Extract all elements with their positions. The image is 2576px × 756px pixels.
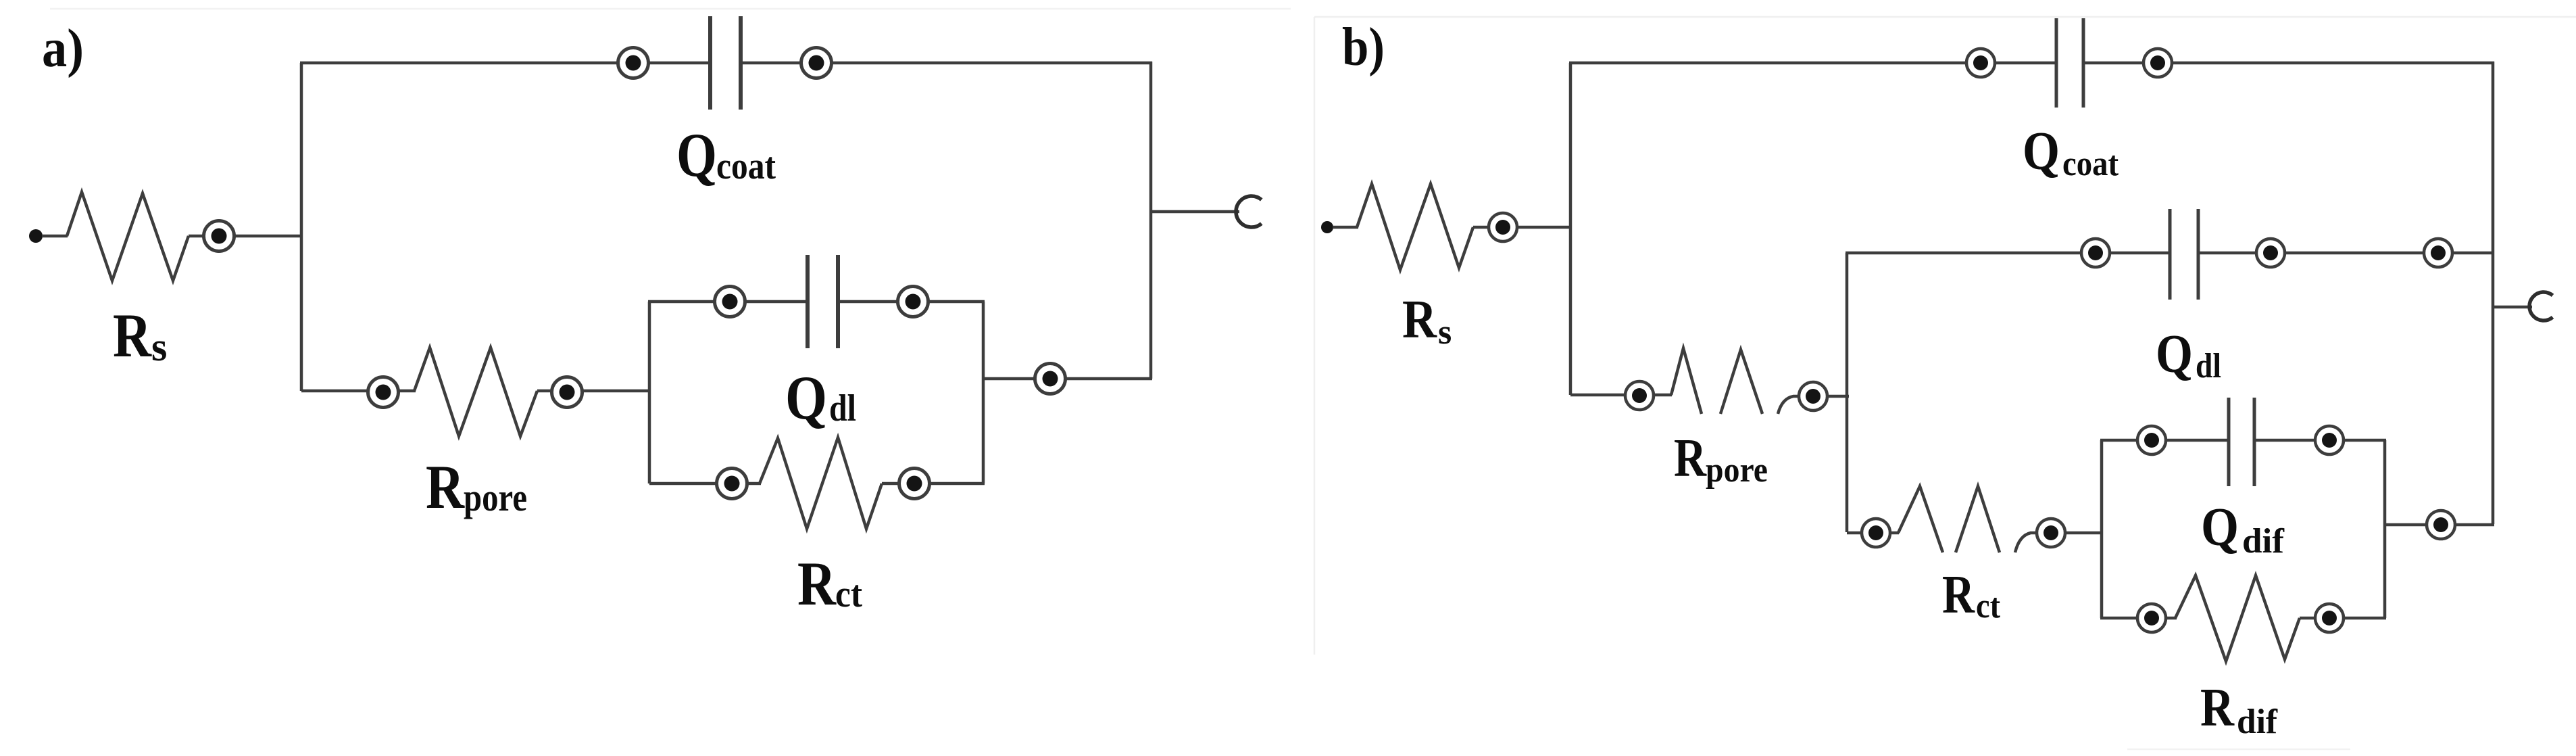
terminal Qdl right (a) [898,287,928,317]
wire Qdif branch left segment (b) [2100,439,2229,442]
wire Qdl branch right segment (b) [2198,252,2494,255]
svg-text:pore: pore [1706,451,1768,490]
wire second branch vertical (b) [1846,253,1849,532]
wire right branch vertical (a) [1149,62,1153,379]
wire top branch left segment (a) [300,62,710,65]
wire Rpore branch left segment (b) [1570,394,1672,397]
open terminal C (b) [2529,292,2552,321]
wire parallel box left vertical (a) [648,302,651,483]
terminal Rct right (b) [2037,519,2065,547]
svg-text:Q: Q [785,363,827,432]
terminal Qcoat left (b) [1966,49,1995,77]
capacitor Qdl (b) [2170,209,2198,300]
svg-text:R: R [1942,565,1975,625]
wire right branch vertical (b) [2492,62,2495,524]
capacitor Qcoat (a) [710,16,741,110]
terminal after Rs (b) [1489,213,1517,241]
wire Rct branch right segment (a) [882,482,985,486]
svg-text:dif: dif [2242,522,2285,561]
terminal box exit (a) [1035,364,1066,394]
wire parallel box right vertical (a) [982,302,985,483]
wire top branch left segment (b) [1569,62,2056,65]
svg-text:Q: Q [2201,498,2239,557]
resistor Rpore (a) [414,348,537,436]
capacitor Qcoat (b) [2056,18,2083,108]
wire Rdif branch left segment (b) [2100,617,2177,620]
svg-text:ct: ct [1976,587,2001,625]
wire inner box left vertical (b) [2100,440,2104,618]
capacitor Qdif (b) [2229,398,2254,486]
terminal Rpore left (a) [368,377,399,408]
panel a label [42,19,84,78]
capacitor Qdl (a) [808,255,838,348]
faint image seam top (b) [1314,16,2576,18]
wire Rct branch left segment (a) [649,482,761,486]
svg-text:dif: dif [2237,703,2278,741]
svg-text:dl: dl [2196,347,2221,385]
svg-text:a): a) [42,19,84,78]
terminal Qdif right (b) [2315,426,2344,454]
wire left branch vertical (a) [300,63,303,391]
terminal node after Rs (a) [204,221,234,252]
resistor Rpore hook (b) [1778,396,1849,414]
resistor Rdif (b) [2175,575,2300,661]
svg-text:s: s [151,325,167,369]
resistor Rpore stroke 1 (b) [1671,348,1702,414]
terminal Qdl left (a) [715,287,745,317]
svg-text:Q: Q [2023,122,2060,181]
terminal Qdl right (b) [2424,239,2452,267]
svg-text:R: R [1402,290,1437,350]
faint image seam left (b) [1314,17,1316,655]
terminal Qdif left (b) [2137,426,2166,454]
terminal Rdif right (b) [2315,604,2344,632]
resistor Rct (a) [760,438,882,529]
svg-text:R: R [2200,678,2235,738]
svg-text:Q: Q [676,120,717,189]
terminal Rpore right (a) [552,377,583,408]
label Rpore (a) [426,452,527,521]
wire Qdif branch right segment (b) [2254,439,2386,442]
panel b label [1342,18,1385,77]
svg-text:coat: coat [2062,145,2119,183]
label Rpore (b) [1674,429,1768,490]
wire Qdl branch left segment (b) [1846,252,2171,255]
wire top branch right segment (a) [741,62,1152,65]
resistor Rct stroke 1 (b) [1898,486,1943,552]
resistor Rs (a) [67,192,189,281]
label Qcoat (a) [676,120,776,189]
label Qdif (b) [2201,498,2285,561]
svg-text:pore: pore [464,475,527,519]
label Rct (b) [1942,565,2001,625]
label Rs (a) [113,301,167,370]
open terminal C (a) [1236,196,1262,227]
resistor Rct hook (b) [2015,533,2103,552]
wire Qdl branch left segment (a) [648,300,808,304]
svg-text:dl: dl [829,387,856,429]
terminal Rpore right (b) [1799,382,1827,410]
label Rs (b) [1402,290,1452,352]
label Qdl (b) [2156,325,2221,385]
svg-text:R: R [1674,429,1707,488]
resistor Rct stroke 2 (b) [1956,486,2000,552]
wire Rs to left vertical (b) [1473,226,1572,229]
wire input lead (b) [1333,226,1358,229]
svg-text:b): b) [1342,18,1385,77]
svg-text:R: R [797,549,837,618]
wire box exit to right branch (a) [983,377,1152,381]
terminal Rpore left (b) [1625,381,1654,410]
label Qcoat (b) [2023,122,2119,183]
wire Qdl branch right segment (a) [838,300,985,304]
svg-text:ct: ct [835,573,862,615]
terminal Rct right (a) [899,469,930,499]
wire inner box exit (b) [2385,523,2494,527]
svg-text:Q: Q [2156,325,2193,384]
wire Rdif branch right segment (b) [2300,617,2386,620]
label Rdif (b) [2200,678,2278,741]
terminal Qcoat left (a) [618,48,649,78]
wire bottom branch left segment (a) [301,389,416,393]
faint image seam (a) [50,8,1291,10]
wire inner box right vertical (b) [2383,440,2387,618]
terminal Qdl middle (b) [2256,239,2285,267]
terminal Rct left (b) [1862,519,1890,547]
input node dot (a) [29,229,43,243]
faint label box edge under Rdif (b) [2127,749,2350,751]
wire Rpore to box (a) [537,389,651,393]
wire output stub (a) [1151,210,1239,214]
label Qdl (a) [785,363,856,432]
terminal inner box exit (b) [2427,511,2455,539]
wire top branch right segment (b) [2083,62,2494,65]
wire Rs to node A (a) [189,235,303,238]
input node dot (b) [1321,221,1333,233]
wire left branch vertical (b) [1569,63,1572,395]
terminal Qcoat right (a) [801,48,832,78]
svg-text:R: R [426,452,465,521]
terminal Qdl left (b) [2081,239,2110,267]
resistor Rpore stroke 2 (b) [1720,350,1762,414]
resistor Rs (b) [1357,184,1473,270]
terminal Rct left (a) [717,469,747,499]
label Rct (a) [797,549,862,618]
svg-text:R: R [113,301,152,370]
svg-text:s: s [1438,313,1452,352]
wire output stub (b) [2493,306,2532,309]
wire input lead (a) [42,235,68,238]
svg-text:coat: coat [716,145,776,187]
terminal Rdif left (b) [2137,604,2166,632]
terminal Qcoat right (b) [2144,49,2172,77]
wire Rct branch left segment (b) [1847,531,1899,535]
